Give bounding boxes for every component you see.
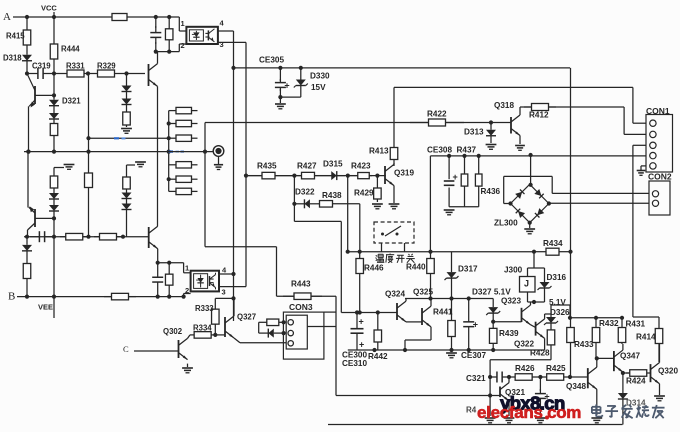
svg-text:J300: J300	[504, 266, 523, 275]
svg-text:R426: R426	[515, 364, 535, 373]
svg-text:D316: D316	[547, 273, 567, 282]
svg-text:D322: D322	[295, 188, 315, 197]
svg-text:R437: R437	[457, 146, 477, 155]
svg-text:D315: D315	[323, 160, 343, 169]
svg-text:D313: D313	[464, 128, 484, 137]
svg-text:1: 1	[185, 264, 189, 273]
svg-text:Q348: Q348	[566, 382, 586, 391]
svg-text:A: A	[3, 11, 11, 23]
svg-text:Q323: Q323	[501, 297, 521, 306]
svg-text:J: J	[524, 278, 529, 288]
svg-text:R431: R431	[626, 320, 646, 329]
svg-text:Q318: Q318	[494, 101, 514, 110]
svg-text:D318: D318	[3, 53, 22, 62]
svg-text:R439: R439	[499, 329, 519, 338]
svg-text:R443: R443	[291, 280, 311, 289]
svg-text:B: B	[8, 291, 15, 303]
svg-text:Q324: Q324	[385, 290, 405, 299]
svg-text:CE310: CE310	[342, 359, 367, 368]
svg-text:R435: R435	[257, 162, 277, 171]
svg-text:R441: R441	[433, 308, 453, 317]
svg-text:R438: R438	[322, 191, 342, 200]
svg-text:R4: R4	[466, 406, 477, 415]
svg-text:R334: R334	[193, 323, 212, 332]
svg-text:R422: R422	[427, 110, 447, 119]
svg-text:D330: D330	[310, 72, 330, 81]
svg-text:elecfans com: elecfans com	[477, 403, 581, 422]
svg-text:D321: D321	[62, 96, 81, 105]
svg-text:R444: R444	[61, 44, 80, 53]
svg-text:+: +	[473, 320, 478, 330]
svg-text:R413: R413	[369, 147, 389, 156]
svg-text:R329: R329	[97, 61, 116, 70]
svg-text:Q327: Q327	[237, 312, 256, 321]
svg-text:VCC: VCC	[41, 4, 57, 13]
svg-text:CON3: CON3	[289, 302, 313, 312]
svg-text:R424: R424	[626, 377, 646, 386]
svg-text:R427: R427	[297, 162, 317, 171]
svg-text:Q322: Q322	[514, 340, 534, 349]
svg-text:2: 2	[185, 286, 189, 295]
svg-text:R429: R429	[354, 189, 374, 198]
svg-text:R440: R440	[406, 263, 426, 272]
svg-text:R432: R432	[599, 319, 619, 328]
svg-text:Q302: Q302	[163, 327, 183, 336]
svg-text:CE305: CE305	[259, 56, 284, 65]
svg-text:Q320: Q320	[658, 367, 678, 376]
svg-text:CON2: CON2	[648, 171, 672, 181]
svg-text:R436: R436	[481, 187, 501, 196]
svg-text:1: 1	[181, 19, 185, 28]
svg-text:3: 3	[220, 40, 224, 49]
svg-text:D317: D317	[458, 265, 478, 274]
svg-text:C321: C321	[466, 374, 486, 383]
svg-text:+: +	[284, 80, 289, 90]
svg-text:2: 2	[181, 41, 185, 50]
svg-text:3: 3	[222, 288, 226, 297]
svg-text:C: C	[123, 344, 129, 354]
svg-text:R442: R442	[368, 352, 388, 361]
svg-text:R425: R425	[546, 364, 566, 373]
svg-text:ZL300: ZL300	[494, 219, 518, 228]
svg-text:Q319: Q319	[394, 169, 414, 178]
svg-text:CE307: CE307	[461, 351, 486, 360]
svg-text:R331: R331	[66, 61, 85, 70]
svg-text:R333: R333	[195, 304, 214, 313]
svg-text:R415: R415	[6, 31, 25, 40]
svg-text:R428: R428	[530, 349, 550, 358]
svg-text:D327 5.1V: D327 5.1V	[472, 288, 511, 297]
svg-text:R434: R434	[543, 239, 563, 248]
svg-text:Q325: Q325	[413, 288, 433, 297]
svg-text:+: +	[359, 339, 364, 349]
svg-text:R414: R414	[636, 333, 656, 342]
svg-text:C319: C319	[32, 61, 51, 70]
svg-text:+: +	[359, 316, 364, 326]
svg-text:VEE: VEE	[38, 303, 53, 312]
svg-text:Q347: Q347	[620, 352, 640, 361]
svg-text:R412: R412	[529, 111, 549, 120]
svg-text:+: +	[453, 172, 458, 182]
svg-text:15V: 15V	[311, 83, 326, 92]
svg-text:CE308: CE308	[427, 146, 452, 155]
svg-text:R423: R423	[351, 162, 371, 171]
svg-text:R433: R433	[574, 340, 594, 349]
svg-text:D326: D326	[550, 308, 570, 317]
svg-text:R446: R446	[364, 264, 384, 273]
